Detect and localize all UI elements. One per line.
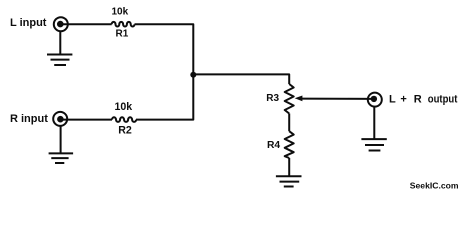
wire from L input to R1 bbox=[60, 23, 111, 25]
connector J3 L+R output jack bbox=[368, 93, 382, 107]
connector J2 R input jack bbox=[53, 112, 67, 126]
ground below L input bbox=[47, 55, 72, 66]
svg-text:10k: 10k bbox=[114, 101, 132, 113]
ground below output jack bbox=[361, 139, 386, 150]
svg-text:R2: R2 bbox=[118, 125, 132, 137]
node junction of R1/R2 summing point bbox=[190, 72, 196, 78]
wiper arrow wire of R3 bbox=[301, 98, 374, 100]
wire from L input jack shell to ground bbox=[59, 31, 61, 54]
ground below R input bbox=[49, 153, 74, 163]
svg-text:R1: R1 bbox=[116, 28, 129, 39]
wire between R3 and R4 bbox=[288, 114, 290, 132]
wire from output jack shell to ground bbox=[373, 107, 375, 140]
connector J1 L input jack bbox=[54, 17, 68, 31]
wire from R1 to corner, down to corner, left to R2 bbox=[135, 24, 194, 119]
resistor R4 bbox=[285, 131, 294, 158]
wire from junction to top of R3 bbox=[193, 74, 289, 84]
svg-text:R4: R4 bbox=[267, 140, 280, 151]
resistor R2 10k bbox=[112, 117, 136, 122]
potentiometer R3 element bbox=[285, 84, 294, 114]
wire from R input to R2 bbox=[60, 119, 112, 121]
wire from R4 to ground bbox=[288, 158, 290, 176]
wire from R input jack shell to ground bbox=[60, 126, 62, 153]
svg-text:R input: R input bbox=[10, 113, 48, 125]
svg-text:R3: R3 bbox=[266, 93, 279, 104]
wiper arrowhead bbox=[295, 96, 303, 102]
svg-text:SeekIC.com: SeekIC.com bbox=[410, 180, 459, 190]
resistor R1 10k bbox=[112, 22, 135, 27]
ground below R4 bbox=[276, 176, 302, 186]
svg-text:L input: L input bbox=[10, 17, 47, 29]
svg-text:10k: 10k bbox=[111, 7, 128, 18]
